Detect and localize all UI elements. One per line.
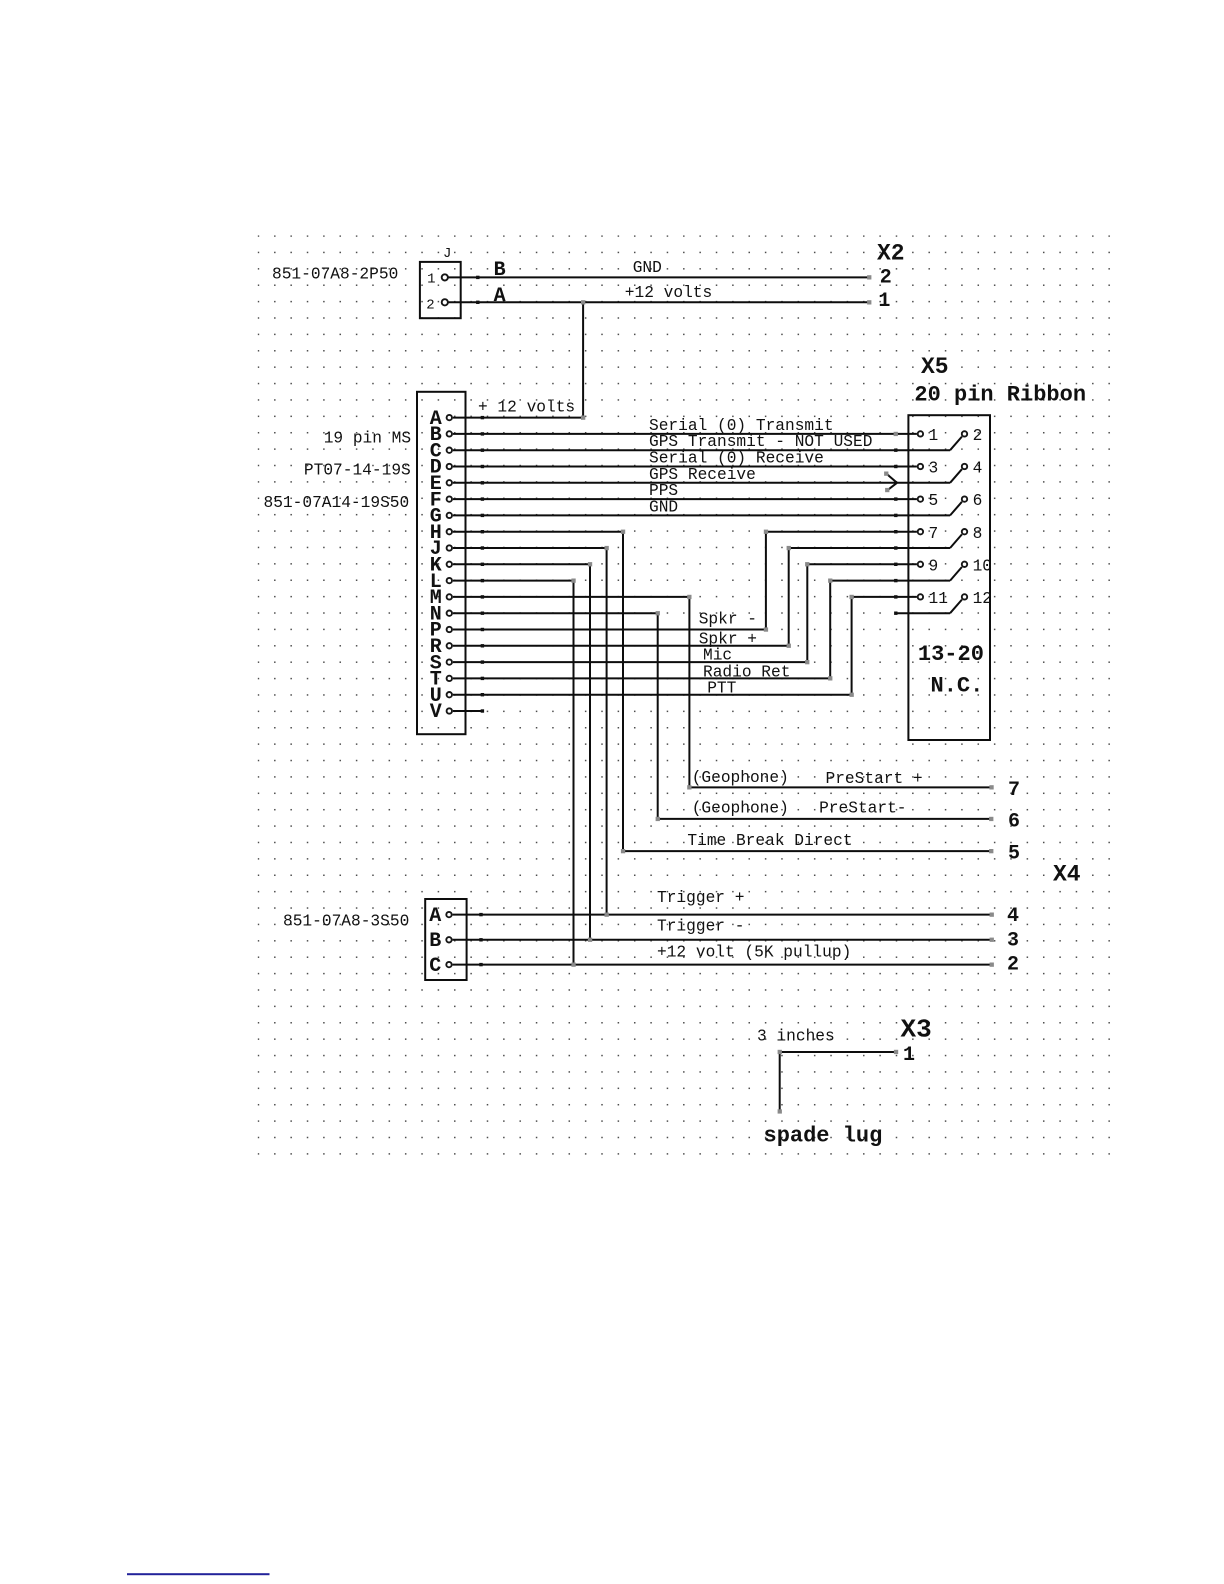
svg-text:PTT: PTT (707, 679, 736, 697)
svg-text:851-07A14-19S50: 851-07A14-19S50 (264, 494, 410, 512)
svg-text:PreStart +: PreStart + (826, 770, 923, 788)
svg-text:1: 1 (929, 427, 939, 445)
svg-text:A: A (429, 905, 441, 928)
svg-text:9: 9 (929, 557, 939, 575)
svg-text:3 inches: 3 inches (757, 1028, 835, 1046)
svg-text:Mic: Mic (703, 646, 732, 664)
svg-text:6: 6 (973, 492, 983, 510)
svg-text:X3: X3 (901, 1015, 932, 1045)
svg-text:3: 3 (1007, 930, 1019, 953)
svg-text:2: 2 (426, 298, 434, 314)
svg-text:B: B (429, 930, 441, 953)
svg-text:Time Break Direct: Time Break Direct (687, 832, 852, 850)
svg-text:5: 5 (1008, 843, 1020, 866)
svg-text:7: 7 (1008, 779, 1020, 802)
svg-text:A: A (494, 285, 506, 308)
svg-text:12: 12 (973, 590, 992, 608)
svg-text:Serial (0) Receive: Serial (0) Receive (649, 450, 824, 468)
svg-text:spade lug: spade lug (764, 1124, 883, 1149)
svg-text:1: 1 (878, 290, 890, 313)
svg-text:J: J (443, 246, 451, 262)
svg-text:13-20: 13-20 (918, 642, 984, 667)
svg-text:1: 1 (903, 1044, 915, 1067)
svg-text:PT07-14-19S: PT07-14-19S (304, 462, 411, 480)
svg-text:Serial (0) Transmit: Serial (0) Transmit (649, 417, 834, 435)
svg-text:20 pin Ribbon: 20 pin Ribbon (914, 383, 1086, 408)
svg-text:(Geophone): (Geophone) (692, 769, 789, 787)
svg-text:N.C.: N.C. (931, 674, 984, 699)
svg-text:GPS Transmit - NOT USED: GPS Transmit - NOT USED (649, 433, 872, 451)
svg-text:X5: X5 (921, 354, 949, 380)
svg-text:4: 4 (1007, 905, 1019, 928)
svg-text:C: C (429, 955, 441, 978)
svg-text:1: 1 (427, 271, 435, 287)
svg-text:Trigger -: Trigger - (657, 918, 744, 936)
svg-text:4: 4 (973, 460, 983, 478)
svg-text:6: 6 (1008, 811, 1020, 834)
svg-text:X2: X2 (877, 241, 905, 267)
svg-text:11: 11 (929, 590, 948, 608)
svg-text:(Geophone): (Geophone) (692, 800, 789, 818)
svg-text:V: V (430, 701, 442, 724)
svg-text:X4: X4 (1053, 861, 1081, 887)
svg-text:10: 10 (973, 557, 992, 575)
svg-text:3: 3 (929, 460, 939, 478)
svg-text:2: 2 (1007, 954, 1019, 977)
svg-text:851-07A8-2P50: 851-07A8-2P50 (272, 266, 398, 284)
svg-text:GND: GND (649, 498, 678, 516)
svg-text:8: 8 (973, 525, 983, 543)
svg-text:Spkr -: Spkr - (699, 611, 757, 629)
svg-text:2: 2 (973, 427, 983, 445)
svg-text:GPS Receive: GPS Receive (649, 466, 756, 484)
svg-text:851-07A8-3S50: 851-07A8-3S50 (283, 913, 409, 931)
svg-text:+12 volt (5K pullup): +12 volt (5K pullup) (657, 944, 851, 962)
svg-text:2: 2 (880, 266, 892, 289)
svg-text:5: 5 (929, 492, 939, 510)
svg-text:B: B (494, 259, 506, 282)
svg-text:+12 volts: +12 volts (625, 284, 712, 302)
svg-text:PreStart-: PreStart- (819, 800, 906, 818)
svg-text:PPS: PPS (649, 482, 678, 500)
svg-text:Trigger +: Trigger + (657, 889, 744, 907)
svg-text:7: 7 (929, 525, 939, 543)
svg-text:GND: GND (633, 259, 662, 277)
svg-text:19 pin MS: 19 pin MS (324, 429, 411, 447)
svg-text:+ 12 volts: + 12 volts (478, 399, 575, 417)
